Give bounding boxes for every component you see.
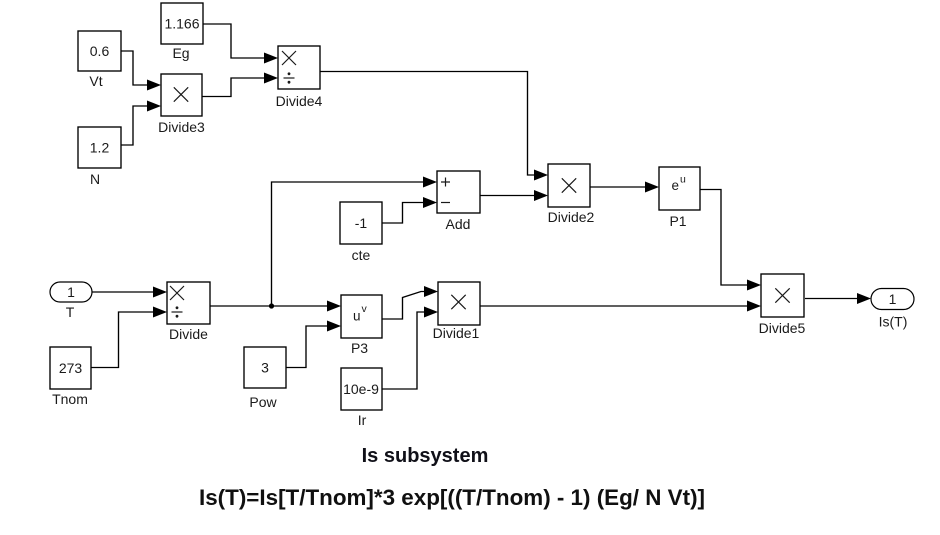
svg-text:Divide5: Divide5: [759, 320, 806, 336]
sum block Add: [437, 171, 480, 232]
product block Divide2: [548, 164, 595, 225]
svg-text:Divide2: Divide2: [548, 209, 595, 225]
svg-text:10e-9: 10e-9: [343, 381, 379, 397]
wire P3 to Divide1 input 1: [382, 286, 438, 319]
outport oval Is(T) (1): [871, 289, 914, 330]
wire Vt to Divide3 input 1: [121, 51, 161, 91]
svg-text:u: u: [680, 174, 686, 186]
wire Eg to Divide4 input 1: [203, 24, 278, 64]
svg-text:0.6: 0.6: [90, 43, 110, 59]
constant block Ir (10e-9): [341, 368, 382, 428]
svg-text:v: v: [362, 303, 368, 315]
svg-text:Divide3: Divide3: [158, 119, 205, 135]
svg-text:cte: cte: [352, 247, 371, 263]
svg-text:Divide1: Divide1: [433, 325, 480, 341]
wire Divide3 to Divide4 input 2: [202, 73, 278, 97]
product block Divide1: [433, 282, 480, 341]
product block Divide4: [276, 46, 323, 109]
wire T to Divide input 1: [92, 287, 167, 298]
wire Divide4 to Divide2 input 1: [320, 72, 548, 181]
constant block N (1.2): [78, 127, 121, 187]
svg-text:1.2: 1.2: [90, 140, 110, 156]
svg-text:Is(T)=Is[T/Tnom]*3 exp[((T/Tno: Is(T)=Is[T/Tnom]*3 exp[((T/Tnom) - 1) (E…: [199, 485, 705, 510]
svg-text:Pow: Pow: [249, 394, 277, 410]
wire N to Divide3 input 2: [121, 101, 161, 146]
inport oval T (1): [50, 282, 92, 320]
constant block cte (-1): [340, 202, 382, 263]
product block Divide: [167, 282, 210, 342]
svg-text:e: e: [672, 178, 680, 193]
constant block Tnom (273): [50, 347, 91, 407]
wire P1 to Divide5 input 1: [700, 190, 761, 291]
constant block Vt (0.6): [78, 31, 121, 89]
wire Divide output to P3 input 1: [210, 301, 341, 312]
svg-text:1.166: 1.166: [164, 16, 199, 32]
svg-text:P1: P1: [669, 213, 686, 229]
wire Divide1 to Divide5 input 2: [480, 301, 761, 312]
wire Ir to Divide1 input 2: [382, 307, 438, 390]
svg-text:Is subsystem: Is subsystem: [362, 445, 489, 467]
product block Divide5: [759, 274, 806, 336]
svg-text:T: T: [66, 304, 75, 320]
wire cte to Add input 2: [382, 197, 437, 223]
svg-text:Is(T): Is(T): [879, 314, 908, 330]
constant block Eg (1.166): [161, 3, 203, 61]
svg-text:Eg: Eg: [172, 45, 189, 61]
svg-text:Add: Add: [446, 216, 471, 232]
junction node on Divide output: [269, 303, 274, 308]
wire Divide5 to outport Is(T): [805, 293, 871, 304]
svg-text:Ir: Ir: [358, 412, 367, 428]
wire branch junction to Add input 1: [272, 177, 438, 307]
wire Tnom to Divide input 2: [91, 307, 167, 368]
svg-text:Divide4: Divide4: [276, 93, 323, 109]
wire Pow to P3 input 2: [286, 321, 341, 368]
wire Add to Divide2 input 2: [480, 190, 548, 201]
svg-text:Vt: Vt: [89, 73, 102, 89]
svg-text:N: N: [90, 171, 100, 187]
svg-text:Tnom: Tnom: [52, 391, 88, 407]
svg-text:273: 273: [59, 360, 83, 376]
svg-text:Divide: Divide: [169, 326, 208, 342]
math function block P3 (u^v): [341, 295, 382, 356]
math function block P1 (e^u): [659, 167, 700, 229]
svg-text:3: 3: [261, 360, 269, 376]
svg-text:1: 1: [67, 284, 75, 300]
svg-text:u: u: [353, 309, 361, 324]
svg-text:-1: -1: [355, 215, 368, 231]
svg-text:P3: P3: [351, 340, 368, 356]
constant block Pow (3): [244, 347, 286, 410]
product block Divide3: [158, 74, 205, 135]
svg-text:1: 1: [889, 291, 897, 307]
wire Divide2 to P1 input: [590, 182, 659, 193]
